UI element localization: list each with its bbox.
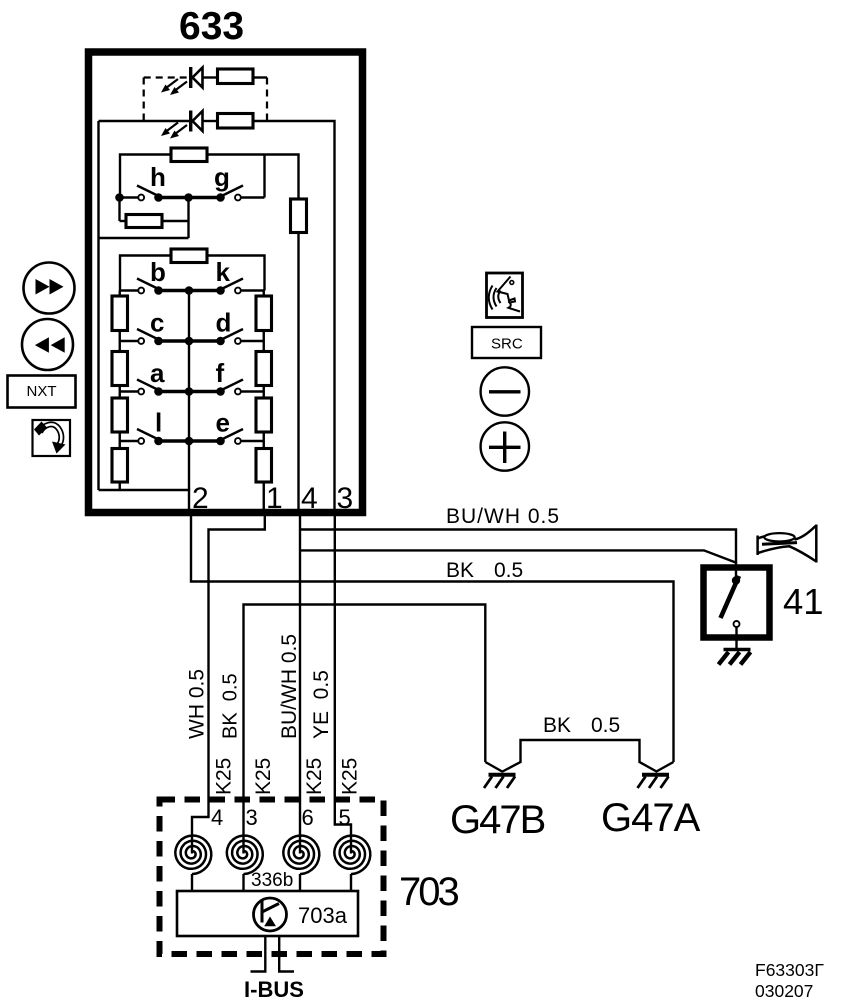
ground G47B symbol xyxy=(484,775,516,788)
wire BK coil to G47B xyxy=(244,605,486,854)
svg-text:a: a xyxy=(150,358,165,388)
wire row c left xyxy=(120,340,138,342)
wire row2 left xyxy=(99,120,190,122)
icon NXT button xyxy=(8,376,76,408)
svg-text:k: k xyxy=(216,257,231,287)
svg-text:f: f xyxy=(216,358,225,388)
wire right chain xyxy=(263,331,265,352)
coil L2 xyxy=(227,836,263,875)
svg-text:BK: BK xyxy=(446,559,474,582)
switch f xyxy=(216,380,243,396)
svg-text:703a: 703a xyxy=(298,903,348,928)
wire pin4 inside xyxy=(297,233,299,517)
wire left chain xyxy=(119,432,121,449)
wire row2 right to pin3 drop xyxy=(253,121,335,516)
wire row a left xyxy=(120,390,138,392)
svg-text:BU/WH 0.5: BU/WH 0.5 xyxy=(446,505,560,528)
switch d xyxy=(216,329,243,345)
resistor R6 xyxy=(171,249,207,263)
switch a xyxy=(137,380,163,396)
svg-text:0.5: 0.5 xyxy=(494,559,523,582)
svg-text:G47B: G47B xyxy=(450,798,545,842)
resistor RL3 xyxy=(112,398,128,432)
wire row e right xyxy=(241,440,264,442)
wire left rail xyxy=(97,121,99,490)
wire row f right xyxy=(241,390,264,392)
resistor R1 xyxy=(218,69,254,84)
wire right chain xyxy=(263,386,265,399)
resistor RL4 xyxy=(112,449,128,483)
svg-text:3: 3 xyxy=(337,482,354,515)
wire h lower drop xyxy=(118,198,120,222)
svg-text:b: b xyxy=(150,257,166,287)
svg-text:K25: K25 xyxy=(252,758,275,795)
switch k xyxy=(216,279,243,295)
svg-text:0.5: 0.5 xyxy=(591,714,620,737)
switch b xyxy=(137,279,163,295)
wire diag to G47B xyxy=(485,762,503,772)
svg-text:2: 2 xyxy=(192,482,209,515)
icon SRC button xyxy=(472,327,541,358)
wire R5 right xyxy=(162,220,189,222)
wire row b-k xyxy=(159,289,221,292)
svg-text:6: 6 xyxy=(302,805,314,830)
resistor RR3 xyxy=(256,398,272,432)
svg-text:K25: K25 xyxy=(339,758,362,795)
wire pin1 WH xyxy=(192,516,265,854)
wire BU/WH branch splice xyxy=(300,550,737,563)
wire row1 right xyxy=(253,76,267,78)
wire pin3 YE xyxy=(335,516,351,854)
contact 41 bottom xyxy=(734,621,740,627)
resistor RL2 xyxy=(112,352,128,386)
resistor R5 xyxy=(126,215,162,228)
wire g riser xyxy=(263,155,265,198)
switch l xyxy=(137,429,163,445)
wire mid drop h xyxy=(187,198,189,239)
wire coil L2 tail xyxy=(242,874,244,891)
wire coil L1 tail xyxy=(191,874,193,891)
wire bottom rail xyxy=(99,490,190,516)
wire dashed row1 left xyxy=(144,76,188,78)
svg-text:F63303Γ: F63303Γ xyxy=(755,960,824,980)
svg-text:K25: K25 xyxy=(213,758,236,795)
svg-text:h: h xyxy=(150,162,166,192)
svg-text:336b: 336b xyxy=(251,870,293,891)
wire left chain xyxy=(119,386,121,399)
switch e xyxy=(216,429,243,445)
resistor R4 vertical xyxy=(291,199,307,233)
resistor RR4 xyxy=(256,449,272,483)
wire left chain xyxy=(119,291,121,297)
coil L1 xyxy=(175,836,211,875)
icon fast-forward button xyxy=(24,263,75,314)
svg-text:l: l xyxy=(155,408,162,438)
svg-text:I-BUS: I-BUS xyxy=(244,977,304,1002)
svg-text:BK: BK xyxy=(543,714,571,737)
node h/g mid xyxy=(184,193,193,202)
node row l centre xyxy=(185,437,194,446)
SID unit box 703 dashed xyxy=(160,800,384,955)
wire h/g top rail xyxy=(120,155,299,200)
svg-text:G47A: G47A xyxy=(601,796,701,840)
wire row l-e xyxy=(159,439,221,442)
wire BU/WH to horn switch xyxy=(300,530,736,581)
icon rewind button xyxy=(22,319,73,370)
svg-text:BK 0.5: BK 0.5 xyxy=(220,673,242,739)
wire row b left xyxy=(120,289,138,291)
wire h-g xyxy=(159,196,221,199)
wire row k right xyxy=(241,289,264,291)
wire right chain xyxy=(263,482,265,516)
wire pin2 to BK line xyxy=(191,516,674,762)
wire left chain xyxy=(119,482,121,490)
wire h row xyxy=(120,196,139,198)
switch h xyxy=(137,186,163,202)
svg-text:YE 0.5: YE 0.5 xyxy=(310,670,333,739)
switch g xyxy=(216,186,243,202)
node h left xyxy=(115,193,124,202)
coil L3 xyxy=(283,836,319,875)
wire h section bottom xyxy=(99,237,189,239)
switch c xyxy=(137,329,163,345)
svg-text:1: 1 xyxy=(266,482,283,515)
wire left chain xyxy=(119,331,121,352)
svg-text:g: g xyxy=(214,162,230,192)
wire pin4 BU/WH vertical xyxy=(299,516,301,854)
svg-text:4: 4 xyxy=(301,482,318,515)
transistor symbol 703a xyxy=(254,898,287,931)
horn icon xyxy=(758,525,817,563)
icon voice control button xyxy=(487,273,523,318)
module box 703a xyxy=(177,891,358,936)
wire row d right xyxy=(241,340,264,342)
svg-text:41: 41 xyxy=(783,581,824,622)
wire I-BUS left xyxy=(251,936,266,972)
wire centre column xyxy=(188,291,190,491)
wire I-BUS right xyxy=(279,936,294,972)
LED D1 xyxy=(189,67,218,88)
svg-text:5: 5 xyxy=(339,805,351,830)
LED D2 xyxy=(189,111,218,132)
svg-text:633: 633 xyxy=(179,5,244,48)
wire right chain xyxy=(263,291,265,297)
svg-text:d: d xyxy=(216,308,232,338)
coil L4 xyxy=(334,836,370,875)
svg-text:BU/WH 0.5: BU/WH 0.5 xyxy=(278,634,301,739)
node row c centre xyxy=(185,337,194,346)
wire b/k top rail xyxy=(120,256,265,291)
wire coil L4 tail xyxy=(350,874,352,891)
component box 633 xyxy=(89,52,363,513)
wire G47B to G47A xyxy=(503,740,657,772)
resistor RR2 xyxy=(256,352,272,386)
svg-text:c: c xyxy=(150,308,164,338)
horn switch box 41 xyxy=(704,568,770,638)
ground G47A symbol xyxy=(638,775,670,788)
wire row l left xyxy=(120,440,138,442)
icon phone button xyxy=(33,420,71,456)
wire g right xyxy=(241,196,265,198)
LED D2 emission arrows xyxy=(161,123,187,139)
node row b centre xyxy=(185,286,194,295)
icon volume-up button xyxy=(481,422,529,470)
resistor R3 xyxy=(171,148,207,162)
svg-text:3: 3 xyxy=(246,805,258,830)
svg-text:703: 703 xyxy=(399,870,458,914)
svg-text:e: e xyxy=(216,408,230,438)
wire 41 to ground xyxy=(735,627,737,648)
ground under 41 xyxy=(719,650,751,665)
svg-text:NXT: NXT xyxy=(27,383,57,400)
switch 41 lever xyxy=(721,576,740,618)
wire coil L3 tail xyxy=(299,874,301,891)
wire dashed left vertical xyxy=(143,78,145,122)
node row a centre xyxy=(185,387,194,396)
svg-text:4: 4 xyxy=(211,805,223,830)
svg-text:WH 0.5: WH 0.5 xyxy=(186,669,209,739)
LED D1 emission arrows xyxy=(161,79,187,95)
wire to R5 xyxy=(120,220,127,222)
wire right chain xyxy=(263,432,265,449)
wire row a-f xyxy=(159,390,221,393)
node 41 top contact xyxy=(732,576,740,584)
resistor RR1 xyxy=(256,296,272,331)
svg-text:K25: K25 xyxy=(303,758,326,795)
wire diag BK to G47A xyxy=(656,762,674,772)
svg-text:030207: 030207 xyxy=(755,981,813,1001)
icon volume-down button xyxy=(481,367,529,415)
wire dashed right vertical xyxy=(266,78,268,122)
resistor RL1 xyxy=(112,296,128,331)
wire row c-d xyxy=(159,339,221,342)
resistor R2 xyxy=(218,114,254,129)
svg-text:SRC: SRC xyxy=(491,336,523,353)
